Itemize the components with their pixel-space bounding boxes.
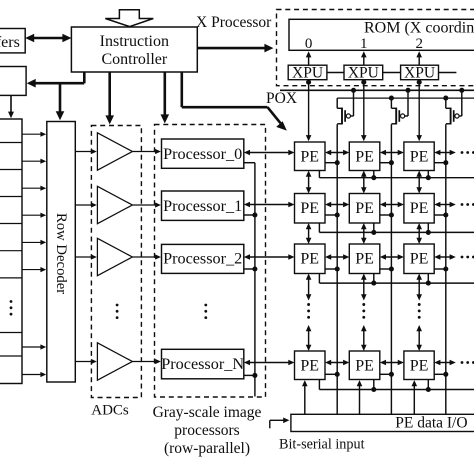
horizontal ellipsis row 4 [461, 361, 474, 364]
pass transistor Q3 gate bar [453, 110, 455, 122]
hollow block arrow into instruction controller [105, 10, 153, 27]
svg-text:Processor_0: Processor_0 [163, 145, 242, 163]
svg-text:Processor_2: Processor_2 [163, 249, 242, 267]
wire bidirectional arrow B1 - Instruction Controller [25, 34, 71, 43]
svg-text:Instruction: Instruction [100, 33, 169, 50]
junction dot row bus 4 col 3 [426, 387, 431, 392]
wire bidirectional PE r3c3 down (to ellipsis) [416, 274, 422, 301]
wire PE r3c3 output to column bus [434, 268, 446, 270]
junction dot gate Q2 on POX bus [405, 88, 410, 93]
junction dot column bus 2 row 4 [389, 372, 394, 377]
PE column bus 3 (vertical) [445, 124, 447, 414]
wire PE r2c3 bottom drop to row bus [427, 223, 429, 232]
junction dot row bus 1 col 2 [371, 175, 376, 180]
wire XPU 1 down to PE column 1 [306, 80, 312, 142]
wire PE r1c3 bottom drop to row bus [427, 171, 429, 178]
XPU box 3 [401, 65, 439, 80]
PE data I/O box [291, 414, 474, 431]
wire PE r3c1 output to column bus [325, 268, 337, 270]
wire XPU3 stub right [439, 72, 457, 74]
wire bidirectional PE r3c1 - PE r3c2 [325, 254, 349, 260]
processor box Processor_N [162, 349, 244, 379]
PE box row4 col3 [404, 351, 434, 380]
wire bidirectional Processor_2 - PE row 3 [244, 254, 295, 260]
junction dot below XPU 1 [306, 80, 311, 85]
pass transistor Q1 gate bubble [346, 114, 350, 118]
wire bidirectional (from ellipsis) - PE rNc2 [361, 325, 367, 351]
instruction controller box [71, 27, 197, 72]
cell divider 6 [0, 277, 22, 279]
svg-text:Processor_1: Processor_1 [163, 197, 242, 215]
wire XPU 3 down to PE column 3 [416, 80, 422, 142]
wire Processor_0 lower output to bus [244, 162, 255, 164]
ADC amplifier triangle 2 [97, 186, 132, 223]
XPU box 2 [344, 65, 383, 80]
junction dot below XPU 3 [417, 80, 422, 85]
wire bidirectional PE r4c3 - right [434, 360, 456, 366]
PE row bus 2 (horizontal) [319, 223, 474, 232]
wire bidirectional PE r3c1 down (to ellipsis) [306, 274, 312, 301]
ADC dashed box [91, 126, 141, 398]
PE box row3 col3 [404, 244, 434, 274]
PE box row2 col2 [349, 194, 380, 224]
pass transistor Q2 gate bar [398, 110, 400, 122]
register box B1 (clipped, '...ffers') [0, 29, 25, 53]
svg-text:POX: POX [266, 90, 297, 107]
wire Processor_N lower output to bus [244, 374, 255, 376]
svg-text:PE: PE [300, 358, 319, 375]
wire instruction controller to X processor ROM box [197, 44, 273, 53]
svg-text:PE: PE [410, 149, 429, 166]
wire PE r3c3 bottom drop to row bus [427, 274, 429, 284]
junction dot column bus 1 row 4 [335, 372, 340, 377]
wire bidirectional PE r2c2 - PE r3c2 [361, 223, 367, 244]
PE column bus 2 (vertical) [390, 124, 392, 414]
wire register cell 8 to Row Decoder [22, 372, 46, 377]
cell divider 3 [0, 196, 22, 198]
wire PE r1c2 output to column bus [380, 162, 392, 164]
wire bidirectional PE r2c1 - PE r2c2 [325, 202, 349, 208]
pass transistor Q1 gate wire to POX [351, 90, 354, 116]
wire register cell 3 to Row Decoder [22, 186, 46, 191]
pass transistor Q3 gate bubble [455, 114, 459, 118]
wire bidirectional PE r3c3 - right [434, 254, 456, 260]
column feed bus (horizontal) [337, 97, 474, 99]
wire PE r4c1 output to column bus [325, 373, 337, 375]
junction dot column bus 3 row 1 [443, 160, 448, 165]
pass transistor Q2 channel [395, 108, 397, 125]
PE row bus 1 (horizontal) [319, 171, 474, 178]
ADC amplifier triangle 4 [97, 343, 132, 380]
svg-text:PE: PE [300, 149, 319, 166]
wire PE data I/O up to PE rNc2 [357, 380, 363, 414]
vertical ellipsis in register column [10, 300, 13, 315]
junction dot row bus 2 col 3 [426, 230, 431, 235]
wire PE r4c3 output to column bus [434, 373, 446, 375]
wire bidirectional PE r1c2 - PE r2c2 [361, 171, 367, 194]
processor box Processor_1 [162, 191, 244, 220]
junction dot gate Q1 on POX bus [351, 88, 356, 93]
pixel register column (segmented, clipped) [0, 119, 22, 384]
junction dot processor bus row 2 [252, 212, 257, 217]
XPU box 1 [288, 65, 327, 80]
svg-text:PE: PE [355, 251, 374, 268]
wire instruction controller to PE array (bent, diagonal) [182, 72, 287, 131]
PE box row4 col2 [349, 351, 380, 380]
svg-text:ROM (X coordinate: ROM (X coordinate [364, 20, 474, 37]
wire bidirectional PE r3c2 - PE r3c3 [380, 254, 404, 260]
pass transistor Q3 source wire [446, 98, 451, 108]
wire B2 down to pixel register column [8, 95, 14, 118]
wire bidirectional (from ellipsis) - PE rNc1 [306, 325, 312, 351]
PE row bus 4 (horizontal) [319, 380, 474, 390]
wire bidirectional PE r2c3 - right [434, 202, 456, 208]
junction dot source Q3 on feed bus [443, 96, 448, 101]
svg-text:PE: PE [410, 200, 429, 217]
svg-text:PE data I/O: PE data I/O [395, 415, 467, 432]
PE box row3 col2 [349, 244, 380, 274]
vertical ellipsis in processor column [204, 304, 207, 319]
wire bidirectional PE r2c3 - PE r3c3 [416, 223, 422, 244]
junction dot processor bus row 4 [252, 373, 257, 378]
PE box row1 col2 [349, 142, 380, 171]
cell divider 7 [0, 332, 22, 334]
pass transistor Q3 drain wire [446, 123, 451, 125]
wire ADC 4 to Processor_N [132, 359, 161, 364]
PE box row3 col1 [295, 244, 326, 274]
pass transistor Q1 source wire [337, 98, 342, 108]
svg-text:1: 1 [360, 36, 368, 52]
wire PE r1c3 output to column bus [434, 162, 446, 164]
svg-text:XPU: XPU [292, 65, 323, 82]
wire Processor_2 lower output to bus [244, 268, 255, 270]
wire XPU2 - XPU3 [383, 72, 401, 74]
vertical ellipsis PE column 2 [362, 303, 365, 319]
wire PE r3c2 bottom drop to row bus [373, 274, 375, 284]
wire XPU 3 to ROM (up arrow) [416, 51, 422, 65]
pass transistor Q3 gate wire to POX [459, 90, 462, 116]
wire Row Decoder to ADC 3 [75, 254, 97, 259]
wire Processor_1 lower output to bus [244, 214, 255, 216]
wire bidirectional PE r2c2 - PE r2c3 [380, 202, 404, 208]
vertical ellipsis PE column 3 [418, 303, 421, 319]
wire XPU1 - XPU2 [327, 72, 344, 74]
horizontal ellipsis row 1 [461, 151, 474, 154]
wire bidirectional Processor_0 - PE row 1 [244, 150, 295, 156]
wire PE r2c1 output to column bus [325, 214, 337, 216]
junction dot column bus 1 row 1 [335, 160, 340, 165]
svg-text:PE: PE [355, 358, 374, 375]
svg-text:ffers: ffers [0, 34, 20, 51]
svg-text:Controller: Controller [101, 51, 167, 68]
wire PE data I/O up to PE rNc1 [302, 380, 308, 414]
wire bidirectional PE r1c3 - PE r2c3 [416, 171, 422, 194]
svg-text:PE: PE [355, 149, 374, 166]
svg-text:2: 2 [415, 36, 423, 52]
register box B2 (clipped) [0, 67, 26, 96]
svg-text:0: 0 [305, 36, 313, 52]
svg-text:PE: PE [300, 251, 319, 268]
wire bidirectional PE r4c1 - PE r4c2 [325, 360, 349, 366]
junction dot row bus 1 col 3 [426, 175, 431, 180]
wire XPU 1 to ROM (up arrow) [306, 51, 312, 65]
wire bidirectional PE r1c1 - PE r2c1 [306, 171, 312, 194]
PE box row2 col3 [404, 194, 434, 224]
svg-text:processors: processors [174, 422, 239, 439]
cell divider 8 [0, 355, 22, 357]
junction dot column bus 3 row 2 [443, 212, 448, 217]
PE box row1 col3 [404, 142, 434, 171]
wire PE r1c2 bottom drop to row bus [373, 171, 375, 178]
svg-text:PE: PE [410, 358, 429, 375]
processor box Processor_0 [162, 139, 244, 168]
wire ADC 1 to Processor_0 [132, 149, 161, 154]
wire Instruction Controller branch down to Row Decoder [56, 83, 65, 120]
wire PE r4c3 bottom drop to row bus [427, 380, 429, 390]
PE row bus 3 (horizontal) [319, 274, 474, 284]
wire XPU 2 to ROM (up arrow) [361, 51, 367, 65]
svg-text:Gray-scale image: Gray-scale image [153, 404, 262, 421]
gray-scale processors dashed box [155, 125, 266, 398]
wire Instruction Controller to B2 (bend left) [27, 72, 85, 88]
svg-text:(row-parallel): (row-parallel) [164, 440, 250, 457]
svg-text:XPU: XPU [348, 65, 379, 82]
junction dot row bus 3 col 2 [371, 281, 376, 286]
X processor dashed box [277, 10, 474, 86]
svg-text:Bit-serial input: Bit-serial input [279, 437, 365, 453]
wire bidirectional Processor_1 - PE row 2 [244, 202, 295, 208]
junction dot row bus 4 col 2 [371, 387, 376, 392]
ROM box [289, 19, 474, 50]
wire register cell 5 to Row Decoder [22, 240, 46, 245]
PE box row1 col1 [295, 142, 326, 171]
horizontal ellipsis row 3 [461, 256, 474, 259]
wire register cell 7 to Row Decoder [22, 344, 46, 349]
wire register cell 6 to Row Decoder [22, 267, 46, 272]
wire PE r4c2 bottom drop to row bus [373, 380, 375, 390]
PE box row4 col1 [295, 351, 326, 380]
pass transistor Q3 channel [450, 108, 452, 125]
vertical ellipsis PE column 1 [307, 303, 310, 319]
pass transistor Q2 drain wire [391, 123, 396, 125]
vertical ellipsis in ADC column [116, 304, 119, 319]
cell divider 1 [0, 142, 22, 144]
processor output bus (vertical) [254, 163, 256, 397]
wire PE r2c3 output to column bus [434, 214, 446, 216]
wire bidirectional PE r1c3 - right [434, 150, 456, 156]
wire bidirectional PE r3c2 down (to ellipsis) [361, 274, 367, 301]
wire PE r2c2 output to column bus [380, 214, 392, 216]
cell divider 5 [0, 250, 22, 252]
junction dot column bus 3 row 4 [443, 372, 448, 377]
junction dot row bus 2 col 2 [371, 230, 376, 235]
wire bidirectional PE r1c2 - PE r1c3 [380, 150, 404, 156]
pass transistor Q2 source wire [391, 98, 396, 108]
svg-text:XPU: XPU [404, 65, 435, 82]
pass transistor Q1 gate bar [344, 110, 346, 122]
junction dot processor bus row 3 [252, 266, 257, 271]
wire ADC 3 to Processor_2 [132, 254, 161, 259]
wire ADC 2 to Processor_1 [132, 202, 161, 207]
wire register cell 1 to Row Decoder [22, 132, 46, 137]
svg-text:ADCs: ADCs [91, 403, 129, 419]
wire PE data I/O up to PE rNc3 [412, 380, 418, 414]
wire PE r4c2 output to column bus [380, 373, 392, 375]
junction dot source Q2 on feed bus [389, 96, 394, 101]
wire Instruction Controller down to ADCs [105, 72, 114, 124]
cell divider 2 [0, 169, 22, 171]
PE box row2 col1 [295, 194, 326, 224]
junction dot column bus 2 row 3 [389, 266, 394, 271]
pass transistor Q2 gate wire to POX [405, 90, 408, 116]
ADC amplifier triangle 1 [97, 133, 132, 170]
bit-serial input arrow [270, 418, 290, 429]
svg-text:PE: PE [300, 200, 319, 217]
wire PE r3c2 output to column bus [380, 268, 392, 270]
svg-text:PE: PE [355, 200, 374, 217]
wire XPU 2 down to PE column 2 [361, 80, 367, 142]
processor box Processor_2 [162, 244, 244, 273]
junction dot column bus 2 row 1 [389, 160, 394, 165]
wire register cell 2 to Row Decoder [22, 159, 46, 164]
wire Row Decoder to ADC 1 [75, 149, 97, 154]
wire bidirectional Processor_N - PE row 4 [244, 360, 295, 366]
svg-text:Row Decoder: Row Decoder [53, 213, 69, 294]
svg-text:X Processor: X Processor [196, 14, 272, 31]
wire bidirectional PE r2c1 - PE r3c1 [306, 223, 312, 244]
wire bidirectional PE r4c2 - PE r4c3 [380, 360, 404, 366]
pass transistor Q2 gate bubble [401, 114, 405, 118]
wire bidirectional PE r1c1 - PE r1c2 [325, 150, 349, 156]
wire PE r2c2 bottom drop to row bus [373, 223, 375, 232]
horizontal ellipsis row 2 [461, 203, 474, 206]
cell divider 4 [0, 223, 22, 225]
wire Instruction Controller down to processors [161, 72, 170, 123]
junction dot column bus 3 row 3 [443, 266, 448, 271]
junction dot below XPU 2 [361, 80, 366, 85]
PE column bus 1 (vertical) [336, 124, 338, 414]
POX bus (horizontal) [280, 89, 474, 91]
svg-text:Processor_N: Processor_N [161, 355, 244, 373]
wire PE r1c1 output to column bus [325, 162, 337, 164]
junction dot row bus 3 col 3 [426, 281, 431, 286]
junction dot column bus 2 row 2 [389, 212, 394, 217]
pass transistor Q1 drain wire [337, 123, 342, 125]
junction dot column bus 1 row 3 [335, 266, 340, 271]
wire bidirectional (from ellipsis) - PE rNc3 [416, 325, 422, 351]
row decoder box [47, 122, 76, 383]
wire register cell 4 to Row Decoder [22, 213, 46, 218]
ADC amplifier triangle 3 [97, 238, 132, 275]
svg-text:PE: PE [410, 251, 429, 268]
junction dot gate Q3 on POX bus [459, 88, 464, 93]
junction dot column bus 1 row 2 [335, 212, 340, 217]
pass transistor Q1 channel [341, 108, 343, 125]
wire Row Decoder to ADC 2 [75, 202, 97, 207]
wire Row Decoder to ADC 4 [75, 359, 97, 364]
